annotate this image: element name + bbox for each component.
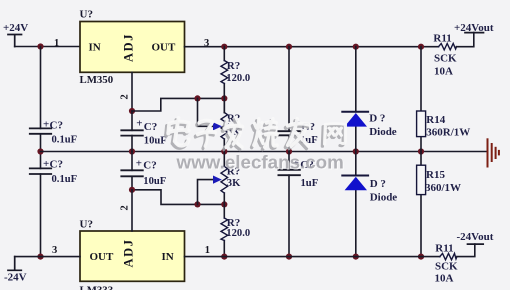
svg-text:0.1uF: 0.1uF <box>52 134 78 145</box>
svg-text:U?: U? <box>80 9 93 21</box>
svg-text:C?: C? <box>50 159 63 171</box>
capacitor C? 0.1uF top <box>30 119 77 146</box>
svg-text:10A: 10A <box>435 272 454 284</box>
watermark <box>166 118 345 174</box>
resistor R15 360/1W <box>417 165 461 194</box>
port +24V <box>3 22 28 47</box>
node dot mid rail at R15 <box>418 148 424 154</box>
svg-text:SCK: SCK <box>434 53 457 65</box>
svg-text:120.0: 120.0 <box>226 228 250 239</box>
wire top ADJ branch L <box>132 98 224 111</box>
svg-text:LM350: LM350 <box>80 74 114 86</box>
svg-text:R15: R15 <box>426 169 445 181</box>
wire bottom rail IN to R11 <box>185 256 440 258</box>
resistor R? 120.0 bottom <box>221 217 250 240</box>
node dot mid rail at 10uF <box>129 148 135 154</box>
regulator U? LM333 <box>80 219 185 290</box>
wire R11 to -24Vout <box>457 244 475 257</box>
svg-text:D ?: D ? <box>370 178 386 190</box>
capacitor C? 1uF top <box>278 47 317 152</box>
wire R14 column <box>420 47 422 257</box>
svg-text:C?: C? <box>50 119 63 131</box>
svg-text:-24Vout: -24Vout <box>457 231 494 243</box>
port -24Vout <box>457 231 494 244</box>
node dot bottom rail chain <box>221 254 227 260</box>
node dot ADJ <box>129 108 135 114</box>
svg-text:10A: 10A <box>434 66 453 78</box>
svg-text:www.elecfans.com: www.elecfans.com <box>176 152 344 173</box>
resistor R? 120.0 top <box>221 60 250 84</box>
svg-text:Diode: Diode <box>370 191 398 203</box>
node dot mid rail at 1uF <box>286 148 292 154</box>
ground power symbol <box>488 139 499 166</box>
node dot bottom rail diode <box>353 254 359 260</box>
capacitor C? 1uF bottom <box>278 152 318 257</box>
svg-text:ADJ: ADJ <box>122 238 136 267</box>
regulator U? LM350 <box>80 9 185 87</box>
node dot top rail at diode <box>353 44 359 50</box>
svg-text:2: 2 <box>119 94 130 99</box>
diode D? bottom <box>342 176 397 204</box>
svg-text:R14: R14 <box>426 114 445 126</box>
node dot bottom rail 1uF <box>286 254 292 260</box>
pin 2 wire ADJ down <box>131 72 133 111</box>
svg-text:0.1uF: 0.1uF <box>52 174 78 185</box>
svg-text:C?: C? <box>143 159 156 171</box>
svg-text:+: + <box>136 158 142 170</box>
wire +24V to IN pin 1 <box>15 46 80 48</box>
resistor R11 SCK 10A top <box>433 33 457 78</box>
svg-text:3: 3 <box>52 245 57 256</box>
svg-text:LM333: LM333 <box>80 285 114 290</box>
svg-text:2: 2 <box>119 205 130 210</box>
svg-text:D ?: D ? <box>369 112 385 124</box>
svg-text:+24Vout: +24Vout <box>454 22 494 34</box>
node junction top-left <box>37 43 43 49</box>
svg-text:U?: U? <box>80 219 93 231</box>
svg-text:+: + <box>43 119 49 131</box>
node dot top rail at C 1uF <box>286 44 292 50</box>
node dot wiper bottom <box>194 201 200 207</box>
svg-text:10uF: 10uF <box>144 136 167 147</box>
node dot left bottom rail <box>37 254 43 260</box>
node dot top rail at R chain <box>221 44 227 50</box>
svg-text:C?: C? <box>144 121 157 133</box>
pin 2 wire ADJ up bottom regulator <box>131 190 133 231</box>
node dot top rail at R14 <box>418 44 424 50</box>
svg-text:1: 1 <box>205 245 210 256</box>
svg-text:+24V: +24V <box>3 22 28 34</box>
svg-text:+: + <box>136 118 142 130</box>
capacitor C? 0.1uF bottom <box>30 158 77 185</box>
svg-text:IN: IN <box>89 41 101 53</box>
wire middle ground rail <box>41 151 488 153</box>
svg-text:R11: R11 <box>433 33 451 45</box>
wire -24V to OUT pin 3 <box>15 256 80 258</box>
port -24V <box>4 257 27 284</box>
svg-text:R11: R11 <box>435 242 453 254</box>
wire left vertical column <box>40 47 42 257</box>
node dot left mid rail <box>37 148 43 154</box>
svg-text:360/1W: 360/1W <box>425 182 461 194</box>
node dot ADJ bottom <box>129 187 135 193</box>
port +24Vout <box>454 22 494 34</box>
potentiometer R? 3K top <box>221 98 241 139</box>
svg-text:+: + <box>43 158 49 170</box>
svg-text:IN: IN <box>162 251 174 263</box>
wire diode column <box>355 47 357 257</box>
capacitor C? 10uF bottom <box>121 152 166 190</box>
wire wiper drop top <box>198 98 215 126</box>
svg-text:1uF: 1uF <box>301 178 319 189</box>
node dot bottom rail R15 <box>418 254 424 260</box>
svg-text:OUT: OUT <box>90 251 115 263</box>
svg-text:SCK: SCK <box>435 260 458 272</box>
svg-text:OUT: OUT <box>152 41 177 53</box>
node dot wiper top <box>194 95 200 101</box>
svg-text:120.0: 120.0 <box>226 73 250 84</box>
diode D? top <box>342 112 397 138</box>
svg-text:R?: R? <box>227 60 240 72</box>
potentiometer R? 3K bottom <box>221 166 241 194</box>
svg-text:Diode: Diode <box>369 126 397 138</box>
pot wiper arrow top <box>213 122 222 130</box>
svg-text:10uF: 10uF <box>143 176 166 187</box>
node dot mid rail at diode <box>353 148 359 154</box>
node dot chain top pot <box>221 95 227 101</box>
svg-text:-24V: -24V <box>4 271 27 283</box>
wire top rail OUT to R11 <box>185 46 439 48</box>
resistor R11 SCK 10A bottom <box>435 242 459 284</box>
svg-text:360R/1W: 360R/1W <box>426 126 470 138</box>
pot wiper arrow bottom <box>213 176 222 184</box>
svg-text:1: 1 <box>54 38 59 49</box>
capacitor C? 10uF top <box>121 111 166 152</box>
wire R11 to +24Vout <box>457 33 474 47</box>
resistor R14 360R/1W <box>417 111 471 138</box>
node dot chain bottom pot <box>221 201 227 207</box>
node dot mid rail at R chain <box>221 148 227 154</box>
svg-text:ADJ: ADJ <box>122 33 136 62</box>
wire wiper rise bottom <box>198 180 215 205</box>
svg-text:3K: 3K <box>227 178 241 189</box>
wire bottom ADJ branch L <box>132 190 224 205</box>
wire chain column segments <box>223 47 225 257</box>
